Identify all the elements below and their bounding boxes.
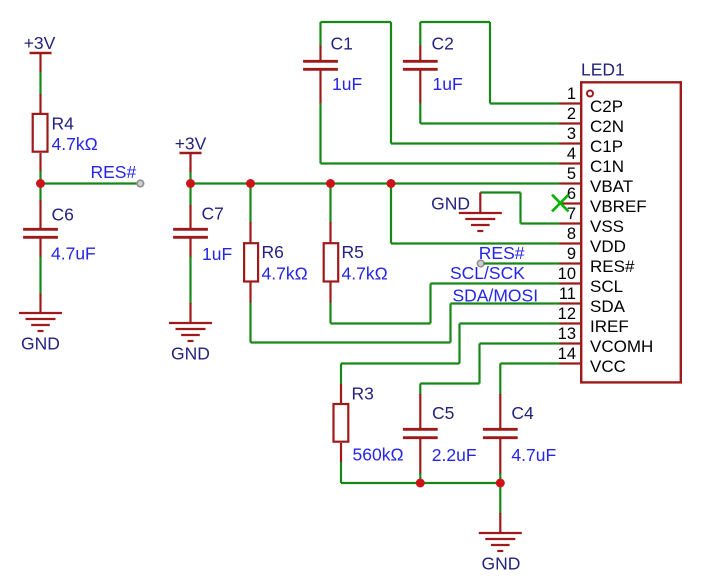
wire R5 bottom run right [331, 322, 431, 324]
wire R6 bottom run right [251, 341, 451, 343]
svg-text:VBREF: VBREF [590, 197, 647, 216]
svg-text:VCC: VCC [590, 357, 626, 376]
wire C2 top run [420, 21, 490, 23]
svg-text:+3V: +3V [175, 133, 207, 153]
wire C2 bottom down [419, 103, 421, 124]
capacitor C6 top pin [39, 200, 41, 229]
svg-text:2: 2 [567, 105, 576, 123]
resistor R3 top pin [340, 384, 342, 403]
resistor R3 bottom pin [340, 443, 342, 463]
wire VCOMH down [478, 344, 480, 384]
svg-text:4.7uF: 4.7uF [51, 244, 96, 264]
svg-text:RES#: RES# [91, 162, 137, 182]
svg-text:1uF: 1uF [433, 74, 463, 94]
capacitor C7 top pin [189, 205, 191, 229]
svg-text:VDD: VDD [590, 237, 626, 256]
svg-text:R3: R3 [352, 384, 374, 404]
pin 12 stub [560, 322, 581, 324]
resistor R6 bottom pin [249, 283, 251, 304]
capacitor C1 plates [303, 61, 338, 69]
capacitor C2 bottom pin [419, 71, 421, 104]
wire R3 top run right [341, 362, 460, 364]
wire rail to R5 [329, 184, 331, 224]
ground symbol (bottom) [479, 533, 522, 551]
svg-text:SCL/SCK: SCL/SCK [450, 263, 525, 283]
pin 8 stub [560, 242, 581, 244]
capacitor C5 bottom pin [419, 439, 421, 474]
svg-text:C2: C2 [432, 34, 454, 54]
resistor R3 body [334, 404, 349, 442]
wire rail to GND [499, 483, 501, 514]
resistor R6 top pin [249, 222, 251, 243]
capacitor C1 top pin [319, 46, 321, 61]
capacitor C6 bottom pin [39, 239, 41, 258]
wire C6 to GND [39, 257, 41, 295]
svg-text:R6: R6 [262, 242, 284, 262]
junction C4/rail/GND [496, 479, 505, 488]
wire rail to R6 [249, 184, 251, 224]
wire main +3V rail to VBAT pin 5 [191, 182, 560, 184]
svg-text:C5: C5 [432, 403, 454, 423]
svg-text:C1P: C1P [590, 137, 623, 156]
capacitor C5 plates [403, 429, 438, 437]
wire C2 top stem [419, 22, 421, 46]
wire to C1P pin 3 [391, 142, 560, 144]
wire to VCOMH pin 13 [480, 342, 560, 344]
svg-text:R5: R5 [342, 242, 364, 262]
wire corner down to VSS row [519, 193, 521, 224]
pin 13 stub [560, 342, 581, 344]
resistor R4 top pin [39, 94, 41, 113]
svg-text:8: 8 [567, 225, 576, 243]
wire rail down to VDD row [390, 184, 392, 244]
svg-text:+3V: +3V [24, 33, 56, 53]
pin 5 stub [560, 182, 581, 184]
wire C4 to rail [499, 473, 501, 483]
wire +3V to R4 [39, 72, 41, 95]
wire to VCC pin 14 [500, 362, 559, 364]
wire down to C1P row [390, 22, 392, 144]
wire down to C2P row [489, 22, 491, 104]
resistor R4 body [33, 114, 48, 152]
wire to C2P pin 1 [490, 102, 560, 104]
wire up to SCL row [429, 284, 431, 324]
svg-text:SDA: SDA [590, 297, 626, 316]
svg-text:9: 9 [567, 245, 576, 263]
pin 2 stub [560, 122, 581, 124]
no-connect X on pin 6 [552, 195, 569, 212]
svg-text:560kΩ: 560kΩ [353, 445, 404, 465]
svg-text:4.7kΩ: 4.7kΩ [342, 264, 388, 284]
svg-text:5: 5 [567, 165, 576, 183]
wire VCOMH run left [420, 382, 479, 384]
svg-text:C7: C7 [202, 204, 224, 224]
capacitor C2 top pin [419, 46, 421, 61]
svg-text:4.7kΩ: 4.7kΩ [52, 134, 98, 154]
svg-text:VSS: VSS [590, 217, 624, 236]
pin 1 stub [560, 102, 581, 104]
resistor R5 top pin [329, 222, 331, 243]
capacitor C4 plates [483, 429, 518, 437]
svg-text:GND: GND [482, 554, 521, 574]
pin 14 stub [560, 362, 581, 364]
capacitor C7 plates [173, 229, 208, 237]
wire C1 top stem [319, 22, 321, 46]
svg-text:GND: GND [171, 344, 210, 364]
svg-text:RES#: RES# [590, 257, 635, 276]
capacitor C1 bottom pin [319, 71, 321, 104]
wire R5 down [329, 303, 331, 324]
wire up to IREF row [458, 324, 460, 364]
svg-text:VBAT: VBAT [590, 177, 633, 196]
junction node R4/C6 [36, 179, 45, 188]
capacitor C5 top pin [419, 394, 421, 428]
wire R4 to node [39, 171, 41, 184]
wire down to C5 [419, 384, 421, 396]
wire node to C6 [39, 184, 41, 202]
svg-text:C2N: C2N [590, 117, 624, 136]
wire R6 down [249, 303, 251, 343]
pin 1 indicator circle [587, 91, 593, 97]
svg-text:7: 7 [567, 205, 576, 223]
junction rail/C7 [186, 179, 195, 188]
svg-text:C4: C4 [511, 403, 534, 423]
net connector circle RES# (pin 9) [477, 260, 484, 267]
svg-text:C6: C6 [52, 205, 74, 225]
pin 4 stub [560, 162, 581, 164]
wire to VDD pin 8 [391, 242, 560, 244]
svg-text:1uF: 1uF [332, 74, 362, 94]
wire node to RES# connector [41, 182, 138, 184]
wire R3 top stem [340, 364, 342, 385]
svg-text:3: 3 [567, 125, 576, 143]
wire to SCL pin 10 [431, 282, 560, 284]
wire C7 to GND [189, 257, 191, 304]
ground stem (bottom) [499, 513, 501, 533]
ground symbol (C7) [169, 323, 212, 341]
wire RES# to pin 9 [484, 262, 560, 264]
svg-text:SDA/MOSI: SDA/MOSI [453, 286, 539, 306]
power +3V (rail) [180, 153, 202, 172]
svg-text:SCL: SCL [590, 277, 623, 296]
svg-text:6: 6 [567, 185, 576, 203]
wire up to SDA row [449, 304, 451, 343]
svg-text:R4: R4 [52, 114, 75, 134]
net connector circle RES# (left) [137, 180, 144, 187]
capacitor C4 bottom pin [499, 439, 501, 474]
resistor R4 bottom pin [39, 153, 41, 172]
junction rail/R5 [326, 179, 335, 188]
resistor R6 body [244, 243, 258, 281]
pin 11 stub [560, 302, 581, 304]
wire C1 top run [321, 21, 392, 23]
pin 3 stub [560, 142, 581, 144]
svg-text:RES#: RES# [479, 243, 525, 263]
svg-text:4.7kΩ: 4.7kΩ [262, 264, 308, 284]
capacitor C4 top pin [499, 394, 501, 428]
svg-text:GND: GND [431, 194, 470, 214]
wire C5 to rail [419, 473, 421, 483]
svg-text:14: 14 [558, 345, 576, 363]
svg-text:IREF: IREF [590, 317, 629, 336]
ground symbol (left) [19, 313, 62, 331]
svg-text:1: 1 [567, 85, 576, 103]
capacitor C7 bottom pin [189, 239, 191, 258]
ground symbol (VSS) [459, 213, 502, 231]
junction rail/VDD drop [387, 179, 396, 188]
wire to IREF pin 12 [460, 322, 560, 324]
svg-text:LED1: LED1 [581, 60, 625, 80]
power +3V (left) [30, 53, 52, 72]
svg-text:4: 4 [567, 145, 576, 163]
pin 7 stub [560, 222, 581, 224]
junction rail/R6 [246, 179, 255, 188]
wire VCC down to C4 [499, 364, 501, 396]
svg-text:C2P: C2P [590, 97, 623, 116]
ground stem (VSS) [479, 193, 481, 214]
wire C1 bottom down [319, 103, 321, 164]
wire +3V to rail node [189, 172, 191, 184]
pin 10 stub [560, 282, 581, 284]
capacitor C6 plates [23, 229, 58, 237]
wire to C2N pin 2 [420, 122, 559, 124]
svg-text:11: 11 [559, 285, 576, 303]
ground stem (C7) [189, 303, 191, 323]
pin 6 stub [560, 202, 581, 204]
wire to C1N pin 4 [321, 162, 560, 164]
svg-text:13: 13 [558, 325, 576, 343]
wire bottom rail [341, 482, 500, 484]
svg-text:1uF: 1uF [202, 244, 232, 264]
svg-text:2.2uF: 2.2uF [432, 445, 477, 465]
svg-text:VCOMH: VCOMH [590, 337, 653, 356]
wire rail to C7 [189, 184, 191, 207]
junction C5/rail [416, 479, 425, 488]
wire to SDA pin 11 [451, 302, 560, 304]
svg-text:GND: GND [21, 334, 60, 354]
pin 9 stub [560, 262, 581, 264]
svg-text:12: 12 [558, 305, 576, 323]
capacitor C2 plates [403, 61, 438, 69]
IC LED1 body [581, 82, 681, 382]
svg-text:4.7uF: 4.7uF [511, 445, 556, 465]
wire R3 bottom stem [340, 462, 342, 483]
wire to VSS pin 7 [521, 222, 560, 224]
resistor R5 bottom pin [329, 283, 331, 304]
resistor R5 body [324, 243, 339, 281]
wire GND to corner [480, 191, 520, 193]
svg-text:C1N: C1N [590, 157, 624, 176]
svg-text:10: 10 [558, 265, 576, 283]
ground stem (left) [39, 294, 41, 314]
svg-text:C1: C1 [331, 34, 353, 54]
